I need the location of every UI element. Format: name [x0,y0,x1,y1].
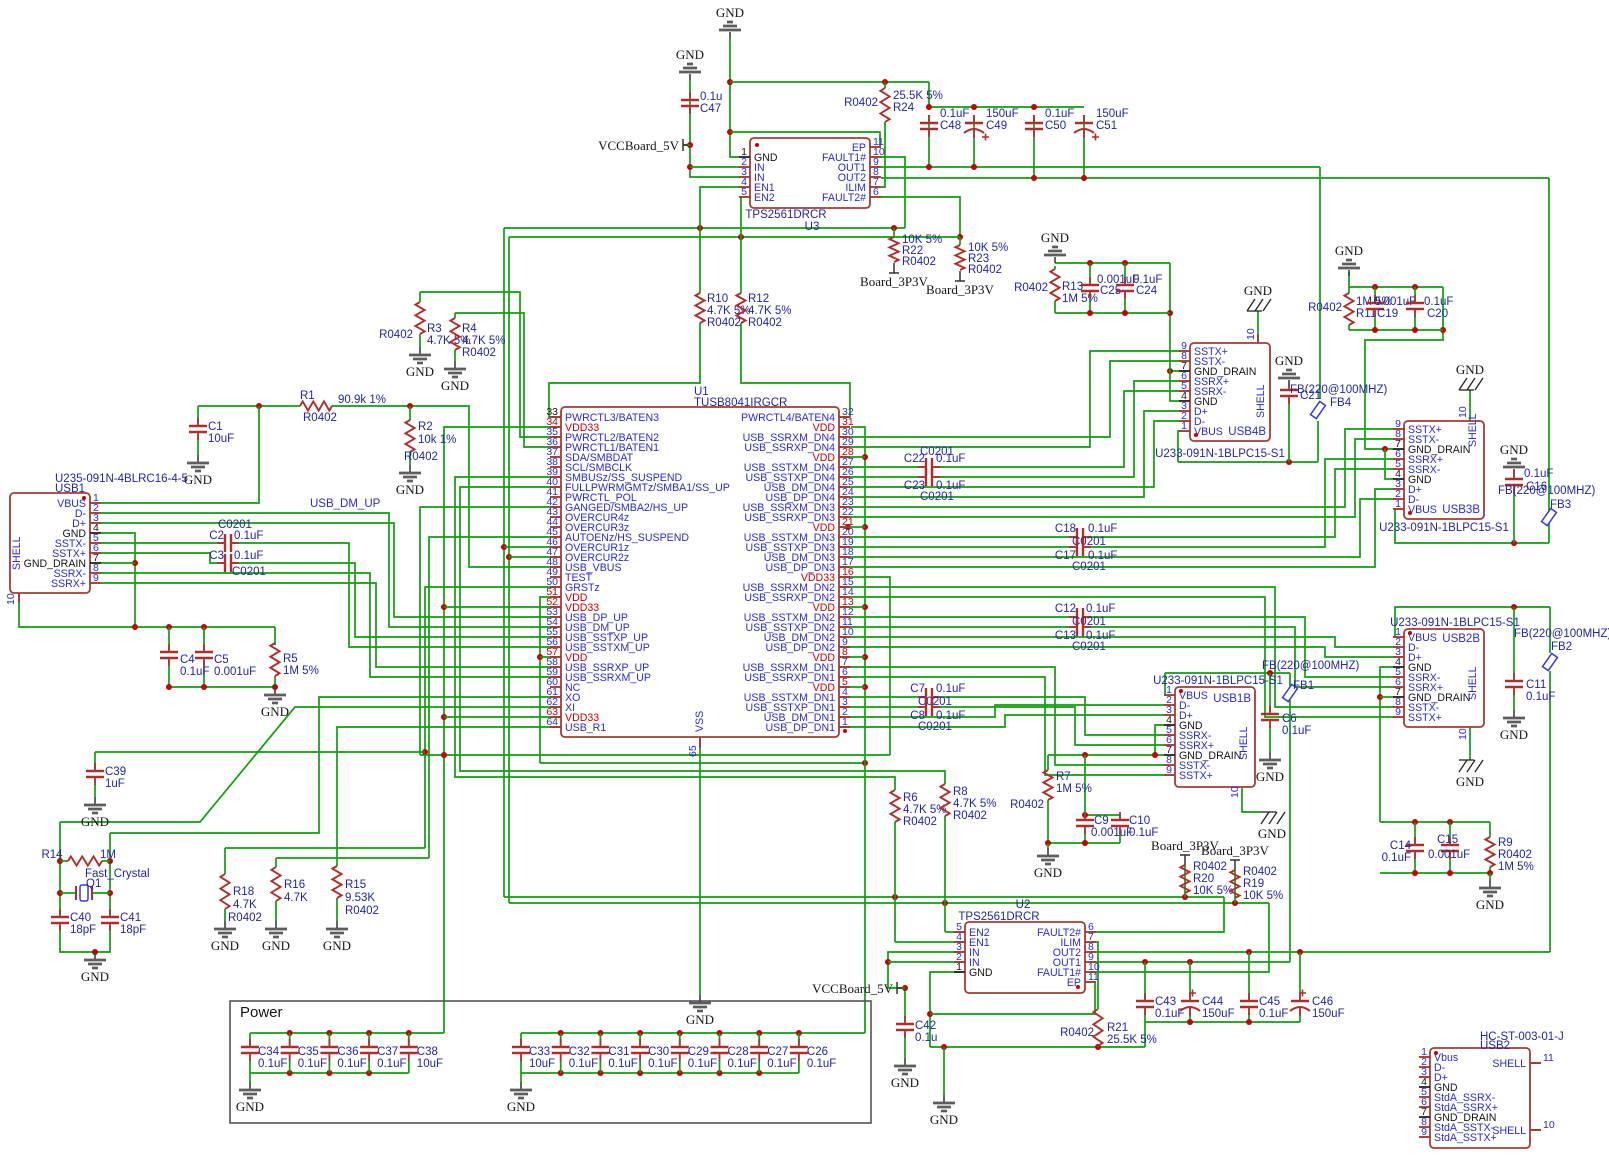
junction [441,714,447,720]
wire [1178,461,1318,463]
wire [730,38,740,157]
svg-text:R19: R19 [1243,878,1264,890]
svg-text:GND: GND [1275,353,1303,368]
svg-text:SSRX+: SSRX+ [51,578,86,590]
svg-text:USB2B: USB2B [1442,633,1480,645]
wire [690,80,740,177]
wire [897,987,905,989]
svg-text:R18: R18 [233,886,254,898]
wire [1489,822,1491,837]
junction [406,1030,412,1036]
svg-text:4.7K 5%: 4.7K 5% [748,305,791,317]
svg-text:GND: GND [81,969,109,984]
svg-text:R0402: R0402 [379,329,413,341]
svg-text:C32: C32 [569,1046,590,1058]
svg-text:C0201: C0201 [920,491,954,503]
junction [287,1070,293,1076]
svg-text:0.1uF: 0.1uF [1045,108,1074,120]
wire [1299,1013,1301,1022]
svg-text:150uF: 150uF [1312,1008,1345,1020]
svg-text:25.5K 5%: 25.5K 5% [1107,1034,1157,1046]
svg-text:0.1uF: 0.1uF [569,1058,598,1070]
wire [503,228,505,897]
wire [740,237,742,293]
wire [1178,431,1180,462]
junction [926,104,932,110]
wire [1549,671,1551,952]
capacitor C21 [1280,390,1298,396]
wire [1091,897,1224,932]
svg-text:10: 10 [5,593,17,605]
wire [92,892,110,894]
wire [1091,903,1269,972]
capacitor C23 [926,468,932,486]
svg-text:C15: C15 [1437,834,1458,846]
wire [699,737,701,995]
junction [558,1070,564,1076]
wire [839,656,865,658]
svg-text:10uF: 10uF [417,1058,443,1070]
wire [289,1060,291,1073]
wire [508,237,510,903]
svg-text:11: 11 [1088,971,1099,983]
svg-text:0.1u: 0.1u [700,91,722,103]
wire [419,334,421,347]
junction [1082,812,1088,818]
junction [326,1030,332,1036]
ground (C21) [1288,380,1290,386]
wire [1055,312,1170,314]
svg-text:C50: C50 [1045,120,1066,132]
junction [862,684,868,690]
capacitor C8 [926,698,932,716]
wire [540,656,561,658]
wire [839,606,865,608]
wire [504,227,905,229]
wire [1289,673,1291,686]
ground (C1) [197,455,199,462]
wire [928,115,930,167]
wire [1449,822,1451,843]
junction [957,234,963,240]
wire [454,350,456,361]
svg-text:C10: C10 [1129,815,1150,827]
svg-text:10: 10 [1245,328,1257,340]
junction [1187,1019,1193,1025]
svg-text:R13: R13 [1062,281,1083,293]
wire [639,1033,641,1046]
wire [943,1047,945,1095]
resistor R3 [415,302,424,334]
svg-text:150uF: 150uF [986,108,1019,120]
wire [94,752,96,770]
wire [839,429,1394,507]
svg-text:C11: C11 [1526,679,1546,691]
svg-text:C24: C24 [1136,285,1158,297]
junction [845,524,851,530]
chassis ground (USB1B shell) [1261,811,1276,813]
wire [460,487,945,784]
svg-text:R0402: R0402 [1498,849,1532,861]
wire [520,1033,522,1046]
wire [839,489,1394,567]
svg-text:R15: R15 [345,879,366,891]
wire [1374,287,1376,301]
wire [1054,266,1056,269]
power flag VCCBoard_5V [683,139,688,151]
svg-text:R0402: R0402 [462,347,496,359]
svg-text:10: 10 [1457,406,1469,418]
capacitor C42 [896,1024,914,1030]
wire [929,106,1084,108]
ground (C39) [94,797,96,804]
svg-text:C40: C40 [70,912,91,924]
svg-text:0.1uF: 0.1uF [807,1058,836,1070]
svg-text:10: 10 [1543,1119,1555,1131]
svg-text:0.1uF: 0.1uF [1526,691,1555,703]
svg-text:R8: R8 [953,786,968,798]
wire [839,466,921,468]
wire [839,677,1164,775]
junction [1511,540,1517,546]
wire [1091,951,1550,953]
wire [1047,800,1049,843]
junction [506,554,512,560]
svg-text:SHELL: SHELL [1255,384,1267,418]
wire [60,892,76,894]
svg-text:5: 5 [741,186,747,198]
svg-text:GND: GND [236,1099,264,1114]
svg-text:C42: C42 [915,1020,936,1032]
junction [57,858,63,864]
wire [944,816,946,932]
svg-text:GND: GND [1256,769,1284,784]
wire [1124,297,1126,313]
svg-text:0.1uF: 0.1uF [1086,603,1115,615]
junction [1246,949,1252,955]
resistor R4 [450,318,459,350]
svg-text:0.1uF: 0.1uF [1088,523,1117,535]
capacitor C19 [1366,303,1384,309]
junction [1440,327,1446,333]
svg-text:SHELL: SHELL [1492,1125,1526,1137]
junction [1167,310,1173,316]
svg-text:R4: R4 [462,323,477,335]
wire [101,553,217,563]
svg-text:64: 64 [546,716,558,728]
svg-text:C45: C45 [1259,996,1280,1008]
svg-text:C0201: C0201 [218,519,252,531]
capacitor C46 [1291,1000,1309,1002]
junction [1511,604,1517,610]
junction [1377,694,1383,700]
wire [101,513,561,627]
svg-text:VSS: VSS [694,711,706,732]
svg-text:C51: C51 [1096,120,1117,132]
svg-text:R1: R1 [300,390,315,402]
wire [1170,370,1180,372]
junction [891,225,897,231]
svg-text:0.1uF: 0.1uF [648,1058,677,1070]
ground (R11 block) [1348,270,1350,276]
junction [756,1070,762,1076]
junction [1152,752,1158,758]
wire [197,406,199,424]
wire [937,381,1180,477]
svg-text:65: 65 [687,745,699,757]
wire [1489,873,1491,880]
capacitor C30 [631,1047,649,1053]
resistor R15 [332,866,341,898]
junction [57,890,63,896]
connector USB2B (U233-091N-1BLPC15-S1) [1404,629,1484,727]
ground (R5) [274,687,276,694]
resistor R12 [736,293,745,323]
wire [881,197,960,237]
capacitor C28 [711,1047,729,1053]
svg-text:4.7K: 4.7K [233,899,257,911]
svg-text:4.7K 5%: 4.7K 5% [462,335,505,347]
wire [1184,865,1186,897]
svg-text:0.001uF: 0.001uF [1091,827,1133,839]
wire [937,391,1180,467]
wire [895,941,965,943]
junction [1267,670,1273,676]
svg-text:VCCBoard_5V: VCCBoard_5V [598,138,680,153]
wire [110,697,561,833]
capacitor C29 [671,1047,689,1053]
junction [971,104,977,110]
svg-text:R0402: R0402 [953,810,987,822]
capacitor C49 [965,122,983,124]
wire [101,573,561,677]
capacitor C22 [926,458,932,476]
svg-text:GND: GND [930,1112,958,1127]
capacitor C14 [1406,845,1424,851]
svg-text:GND: GND [1335,243,1363,258]
svg-text:SSTX+: SSTX+ [1408,712,1442,724]
svg-text:FB(220@100MHZ): FB(220@100MHZ) [1262,660,1359,672]
svg-text:GND: GND [261,704,289,719]
wire [1088,459,1394,547]
wire [700,187,740,228]
capacitor C50 [1025,123,1043,129]
wire [520,1073,522,1082]
capacitor C17 [1077,538,1083,556]
svg-text:18pF: 18pF [120,924,146,936]
capacitor C3 [225,554,231,572]
svg-text:9: 9 [1395,706,1401,718]
resistor R18 [220,874,229,909]
chassis ground (USB4B shell) [1247,310,1262,312]
junction [132,560,138,566]
svg-text:U2: U2 [1016,899,1031,911]
ground (R9) [1489,880,1491,887]
wire [1189,1013,1191,1022]
svg-text:SHELL: SHELL [1238,726,1250,760]
junction [92,949,98,955]
wire [1319,167,1321,399]
svg-text:FB(220@100MHZ): FB(220@100MHZ) [1514,628,1609,640]
svg-text:U3: U3 [805,221,820,233]
resistor R10 [695,293,704,323]
wire [168,661,170,687]
wire [1380,696,1394,698]
svg-text:C37: C37 [377,1046,398,1058]
wire [1269,673,1271,712]
wire [839,526,865,528]
wire [101,406,259,503]
svg-text:C27: C27 [767,1046,788,1058]
svg-text:USB4B: USB4B [1228,426,1266,438]
svg-text:GND: GND [184,472,212,487]
wire [839,499,1394,557]
resistor R21 [1093,1009,1102,1046]
wire [1242,787,1261,812]
wire [540,597,561,763]
wire [1084,832,1086,843]
resistor R16 [271,867,280,901]
capacitor C43 [1136,1001,1154,1007]
resistor R9 [1485,837,1494,867]
svg-text:R0402: R0402 [345,905,379,917]
wire [274,676,276,687]
svg-text:C48: C48 [940,120,961,132]
wire [741,323,850,417]
wire [930,1046,1145,1048]
wire [276,857,429,859]
svg-text:GND: GND [81,814,109,829]
wire [94,784,96,797]
svg-text:C0201: C0201 [920,446,954,458]
wire [549,323,700,417]
svg-text:R12: R12 [748,293,769,305]
wire [888,952,965,1020]
svg-text:U233-091N-1BLPC15-S1: U233-091N-1BLPC15-S1 [1155,448,1285,460]
junction [941,1044,947,1050]
svg-text:C1: C1 [208,421,223,433]
wire [101,523,561,617]
svg-text:R0402: R0402 [404,451,438,463]
svg-text:C44: C44 [1202,996,1224,1008]
wire [1469,390,1471,421]
ground (R2) [409,465,411,472]
svg-text:1M: 1M [100,849,116,861]
svg-text:C30: C30 [648,1046,669,1058]
svg-text:R0402: R0402 [1243,866,1277,878]
wire [504,546,561,548]
power flag Board_3P3V (R20) [1180,855,1190,865]
wire [101,533,135,627]
wire [1047,755,1049,770]
wire [683,144,690,146]
junction [166,684,172,690]
wire [1289,700,1291,962]
wire [730,132,880,147]
junction [862,524,868,530]
junction [1372,327,1378,333]
wire [937,707,1164,745]
ground (R16) [275,921,277,928]
junction [537,654,543,660]
svg-text:10uF: 10uF [208,433,234,445]
resistor R13 [1050,269,1059,301]
junction [1372,284,1378,290]
wire [328,1033,330,1046]
junction [1167,368,1173,374]
wire [730,81,929,83]
wire [60,924,110,952]
wire [839,421,1180,487]
svg-text:R3: R3 [427,323,442,335]
svg-text:R2: R2 [418,421,433,433]
junction [501,544,507,550]
wire [839,476,921,478]
ground (R18) [224,921,226,928]
svg-text:U233-091N-1BLPC15-S1: U233-091N-1BLPC15-S1 [1390,617,1520,629]
wire [420,507,561,755]
wire [937,697,1164,735]
wire [1414,822,1416,843]
wire [455,477,895,790]
connector USB3B (U233-091N-1BLPC15-S1) [1404,421,1484,519]
wire [1088,469,1394,537]
resistor R14 [68,856,102,865]
svg-text:GND: GND [1500,442,1528,457]
wire [455,313,561,447]
junction [441,604,447,610]
capacitor C1 [189,426,207,432]
wire [1513,607,1515,677]
svg-text:TUSB8041IRGCR: TUSB8041IRGCR [694,397,787,409]
wire [839,361,1180,437]
wire [1085,814,1120,816]
capacitor C6 [1261,714,1279,720]
svg-text:FB1: FB1 [1293,680,1314,692]
svg-text:R0402: R0402 [968,264,1002,276]
wire [888,961,965,963]
wire [289,1033,291,1046]
capacitor C16 [1505,479,1523,485]
wire [1084,755,1086,815]
capacitor C47 [681,100,699,106]
svg-text:C26: C26 [807,1046,828,1058]
wire [679,1060,681,1073]
svg-text:90.9k 1%: 90.9k 1% [338,394,386,406]
svg-text:C47: C47 [700,103,721,115]
svg-text:10K 5%: 10K 5% [1243,890,1283,902]
svg-text:18pF: 18pF [70,924,96,936]
resistor R2 [405,420,414,452]
capacitor C51 [1075,122,1093,124]
svg-text:GND: GND [441,378,469,393]
ground (power group2) [520,1082,522,1089]
svg-text:1M 5%: 1M 5% [1498,861,1534,873]
junction [166,624,172,630]
svg-text:0.001uF: 0.001uF [1428,849,1470,861]
junction [107,858,113,864]
wire [1164,673,1166,695]
svg-text:R24: R24 [893,102,915,114]
wire [740,197,741,237]
junction [882,79,888,85]
svg-text:U233-091N-1BLPC15-S1: U233-091N-1BLPC15-S1 [1153,675,1283,687]
junction [717,1070,723,1076]
wire [444,606,561,608]
svg-text:6: 6 [873,186,879,198]
svg-text:0.1uF: 0.1uF [936,683,965,695]
wire [521,1032,865,1034]
